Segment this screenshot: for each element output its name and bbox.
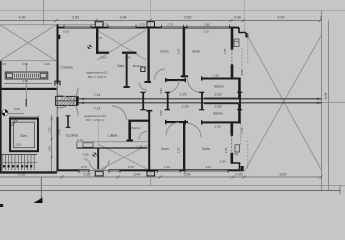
terrace edge dashed lower xyxy=(247,140,249,170)
svg-text:1.90: 1.90 xyxy=(213,74,219,78)
top wall notch pilaster 1 xyxy=(95,22,103,27)
svg-text:Banho: Banho xyxy=(133,64,142,68)
corridor line continuation right xyxy=(322,102,345,104)
svg-text:4.30: 4.30 xyxy=(22,79,28,83)
construction line top xyxy=(0,10,345,12)
banho lower east wall xyxy=(238,104,241,124)
stub x202 I shape xyxy=(201,93,203,110)
pia counter upper xyxy=(234,39,239,47)
svg-text:3.05: 3.05 xyxy=(177,48,181,54)
svg-text:P.D. = 2.52 m: P.D. = 2.52 m xyxy=(86,118,105,122)
banho north wall y78.8 xyxy=(201,78,241,80)
svg-text:Sala: Sala xyxy=(117,64,124,68)
svg-text:Cozinha: Cozinha xyxy=(66,133,79,137)
flag symbol xyxy=(34,198,43,204)
svg-text:3.05: 3.05 xyxy=(223,48,227,54)
svg-text:P.D. = 2.52 m: P.D. = 2.52 m xyxy=(88,75,107,79)
stairs mid line xyxy=(1,162,38,164)
svg-text:0.80: 0.80 xyxy=(159,88,163,94)
left dim labels row xyxy=(2,62,50,66)
elevator shaft outer wall xyxy=(10,119,38,152)
svg-text:2.70: 2.70 xyxy=(167,23,173,27)
elevator dim line above xyxy=(10,116,38,118)
bottom-right wall end cap xyxy=(241,166,244,171)
suite window dashed lower xyxy=(231,136,233,153)
top-right wall step xyxy=(239,28,246,33)
bottom wall band right xyxy=(109,169,241,171)
suite right wall lower upper part xyxy=(231,123,234,135)
porch bar left block xyxy=(7,73,13,78)
centerline x26 xyxy=(25,63,27,107)
hall door arc xyxy=(155,69,166,80)
svg-text:2.75: 2.75 xyxy=(58,129,62,135)
top-left hatched block X diagonals xyxy=(0,25,56,61)
suite lower door arc xyxy=(188,124,202,138)
svg-text:Suite: Suite xyxy=(192,50,200,54)
svg-text:3.00: 3.00 xyxy=(220,159,226,163)
svg-text:3.00: 3.00 xyxy=(205,165,211,169)
svg-text:3.05: 3.05 xyxy=(177,147,181,153)
bottom french door arcs xyxy=(89,160,99,170)
stub x143.5 I shape xyxy=(142,93,144,110)
top wall window cores xyxy=(64,27,230,29)
left outer wall lower xyxy=(57,117,59,171)
svg-text:1.33: 1.33 xyxy=(125,56,131,60)
banho1 door arc xyxy=(139,82,147,90)
svg-text:Suite: Suite xyxy=(202,147,210,151)
svg-text:0.75: 0.75 xyxy=(81,165,87,169)
svg-text:2.25: 2.25 xyxy=(180,92,187,96)
stub x240 I shape xyxy=(239,93,241,110)
porch bar hatched infill xyxy=(15,74,39,78)
svg-text:2.83: 2.83 xyxy=(72,15,79,19)
wall x148 bottom cap xyxy=(145,81,152,83)
corridor dimension lower line xyxy=(79,102,322,104)
svg-text:Dorm: Dorm xyxy=(161,147,169,151)
bottom dim labels xyxy=(18,173,287,177)
top wall labels xyxy=(102,23,210,27)
top wall band xyxy=(57,27,240,29)
top dimension line xyxy=(0,16,322,22)
svg-text:0.30: 0.30 xyxy=(63,30,69,34)
svg-text:1.90: 1.90 xyxy=(215,125,221,129)
banho lower north wall xyxy=(201,121,241,123)
svg-text:3.94: 3.94 xyxy=(120,15,127,19)
wall x149 lower full xyxy=(148,111,150,170)
wall x149 top cap xyxy=(146,110,152,112)
svg-text:3.44: 3.44 xyxy=(134,173,141,177)
left vertical dim line near stair xyxy=(51,115,53,172)
svg-text:Banho: Banho xyxy=(132,126,141,130)
svg-text:0.90: 0.90 xyxy=(83,153,89,157)
svg-text:1.05: 1.05 xyxy=(240,69,244,75)
stub x78 xyxy=(77,96,79,105)
bottom wall notch pilaster 2 xyxy=(147,171,155,176)
bottom wall notch pilaster 1 xyxy=(95,171,103,176)
stairs top line xyxy=(1,154,38,156)
svg-text:2.26: 2.26 xyxy=(182,105,189,109)
stair walk line dashed with squares xyxy=(3,165,32,167)
svg-text:Pia: Pia xyxy=(234,40,238,44)
top-right wall end cap xyxy=(245,33,248,37)
hallway wall segment A y80 xyxy=(165,79,186,81)
pia counter lower xyxy=(235,145,240,152)
svg-text:Dorm: Dorm xyxy=(160,50,168,54)
porch dim line xyxy=(4,83,52,85)
bottom wall left section xyxy=(0,171,57,173)
svg-text:3.05: 3.05 xyxy=(224,147,228,153)
svg-text:1.30: 1.30 xyxy=(137,144,143,148)
cozinha wall x96 xyxy=(96,28,98,54)
banho north wall cap xyxy=(201,76,202,80)
entrance door arc apartment 01 xyxy=(58,88,79,109)
svg-text:2.10: 2.10 xyxy=(164,165,170,169)
suite right wall x232 upper xyxy=(231,28,234,49)
svg-text:Banho: Banho xyxy=(214,85,223,89)
svg-text:0.9: 0.9 xyxy=(2,62,7,66)
svg-text:Elev.: Elev. xyxy=(20,134,27,138)
svg-text:5.00: 5.00 xyxy=(278,15,285,19)
terrace X diagonals right xyxy=(247,34,323,171)
reference drop line with flag xyxy=(40,177,42,203)
kitchen counter lower bottom edge xyxy=(77,147,148,149)
svg-text:4.5: 4.5 xyxy=(98,36,102,40)
banho east wall x239.5 xyxy=(238,78,241,99)
top wall window tick marks xyxy=(64,25,230,29)
tick right end xyxy=(339,186,341,194)
bottom overall dimension line 2 xyxy=(0,190,340,192)
banho2 door arc xyxy=(112,106,127,121)
stair steps xyxy=(2,155,34,170)
construction vertical x244 top xyxy=(243,0,245,33)
wall y52.8 segment A xyxy=(96,52,109,54)
shaft corner hatch xyxy=(12,120,16,124)
entrance door arc apartment 02 xyxy=(58,95,79,116)
svg-text:7.14: 7.14 xyxy=(94,93,101,97)
suite right wall x232 lower xyxy=(231,64,234,79)
svg-text:1.50: 1.50 xyxy=(15,143,21,147)
dorm-suite divider wall lower x184 xyxy=(183,123,185,169)
vent dashed line lower xyxy=(240,124,242,147)
svg-text:2.20: 2.20 xyxy=(203,30,209,34)
svg-text:0.80: 0.80 xyxy=(159,110,163,116)
wall x148 xyxy=(147,28,149,82)
svg-text:4.30: 4.30 xyxy=(19,15,26,19)
small wall return 0.30 xyxy=(57,35,61,39)
corridor dim arrowheads xyxy=(80,98,85,100)
svg-text:1.05: 1.05 xyxy=(240,127,244,133)
svg-text:5.50: 5.50 xyxy=(184,173,191,177)
svg-text:2.74: 2.74 xyxy=(77,138,83,142)
svg-text:2.90: 2.90 xyxy=(22,62,28,66)
svg-text:1.80: 1.80 xyxy=(48,146,52,152)
svg-text:1.40: 1.40 xyxy=(44,62,50,66)
divider top cap lower xyxy=(181,121,188,123)
svg-text:Pia: Pia xyxy=(234,152,238,156)
banho corridor wall upper xyxy=(204,98,239,100)
svg-text:0.00: 0.00 xyxy=(14,107,20,111)
svg-text:7.14: 7.14 xyxy=(94,106,101,110)
bottom balcony door threshold xyxy=(89,169,109,171)
level marker upper sala xyxy=(88,45,92,49)
level leader line xyxy=(8,113,24,115)
suite door arc xyxy=(188,79,202,93)
banho2 south cap xyxy=(126,140,133,142)
svg-text:0.75: 0.75 xyxy=(128,165,134,169)
hall wall y88.8 xyxy=(2,88,57,90)
svg-text:Cozinha: Cozinha xyxy=(60,66,73,70)
terrace edge dashed upper xyxy=(247,34,249,64)
dorm door arc xyxy=(166,80,179,93)
bottom dimension line 1 xyxy=(0,176,323,179)
svg-text:0.75: 0.75 xyxy=(102,23,108,27)
bottom wall band left xyxy=(57,169,90,171)
porch bar right block xyxy=(40,73,46,78)
suite window dashed xyxy=(231,50,233,65)
bottom wall labels xyxy=(81,159,226,168)
construction line top-left block bottom edge xyxy=(0,60,56,62)
svg-text:1.14: 1.14 xyxy=(100,56,106,60)
svg-text:6.09: 6.09 xyxy=(324,93,328,100)
svg-text:5.00: 5.00 xyxy=(280,173,287,177)
bottom wall window cores xyxy=(79,169,228,171)
svg-text:2.80: 2.80 xyxy=(204,23,210,27)
corridor labels xyxy=(94,92,222,110)
wall y52.8 pier B xyxy=(122,52,137,54)
banho2 small arc xyxy=(139,132,147,140)
entrance door jamb upper xyxy=(55,81,60,85)
svg-text:0.90: 0.90 xyxy=(234,15,241,19)
sink rect xyxy=(83,143,93,147)
construction line x150.7 bottom xyxy=(150,172,152,186)
svg-text:2.93: 2.93 xyxy=(84,173,91,177)
suite right wall lower bottom part xyxy=(231,153,234,164)
svg-text:Banho: Banho xyxy=(213,111,222,115)
stub x168 I shape xyxy=(167,93,169,110)
construction vertical x43.5 top xyxy=(43,0,45,25)
entrance hatched wall block xyxy=(56,96,77,105)
svg-text:2.33: 2.33 xyxy=(215,105,222,109)
hallway wall lower segment A y122 xyxy=(165,121,186,123)
svg-text:5.50: 5.50 xyxy=(185,15,192,19)
divider bottom cap xyxy=(181,75,188,77)
dorm lower door arc xyxy=(166,123,179,136)
construction line top-left block top edge xyxy=(0,24,96,26)
cozinha wall x98 lower xyxy=(97,148,99,169)
level marker symbol xyxy=(2,110,8,116)
level marker lower sala xyxy=(93,153,97,157)
svg-text:1.10: 1.10 xyxy=(107,133,113,137)
bottom-right wall step xyxy=(232,163,240,169)
kitchen counter lower top edge xyxy=(77,141,148,143)
entrance partition stub apt02 xyxy=(66,115,71,128)
faint divider line lower xyxy=(97,121,99,148)
bottom wall window ticks xyxy=(79,169,228,173)
left wall thin line across entrance xyxy=(56,84,58,118)
construction vertical x150 top xyxy=(150,0,152,27)
hall wall x126.5 bottom cap xyxy=(124,86,130,88)
upper sala X diagonals xyxy=(97,30,146,60)
svg-text:2.20: 2.20 xyxy=(48,127,52,133)
left boundary wall xyxy=(0,61,2,174)
vent dashed line upper xyxy=(241,48,243,77)
svg-text:2.33: 2.33 xyxy=(215,92,222,96)
duct box xyxy=(141,67,145,72)
svg-text:0.90: 0.90 xyxy=(236,173,243,177)
svg-text:4.5: 4.5 xyxy=(84,157,88,161)
hall wall x126.5 xyxy=(126,54,128,88)
svg-text:0.75: 0.75 xyxy=(139,23,145,27)
hallway wall segment A caps xyxy=(165,78,166,82)
counter left end xyxy=(76,142,78,148)
corridor dimension upper line xyxy=(79,98,322,100)
elevator shaft inner line xyxy=(14,122,35,148)
corner mark bottom-left xyxy=(0,204,3,207)
dorm-suite divider wall x184.5 xyxy=(183,28,186,77)
centerline end tick xyxy=(25,99,27,107)
banho2 west wall x129.7 xyxy=(128,121,131,142)
porch bar outer xyxy=(5,72,48,79)
construction line bottom xyxy=(0,185,345,187)
boundary vertical x322 right xyxy=(321,11,323,191)
banho corridor wall lower xyxy=(204,102,239,104)
right vertical dimension line x328 xyxy=(328,21,330,191)
top wall notch pilaster 2 xyxy=(147,22,155,27)
top dim labels xyxy=(19,15,285,19)
lower sala X diagonals xyxy=(98,144,150,171)
banho2 north wall y120.7 xyxy=(128,120,150,122)
left outer wall upper xyxy=(57,25,59,85)
